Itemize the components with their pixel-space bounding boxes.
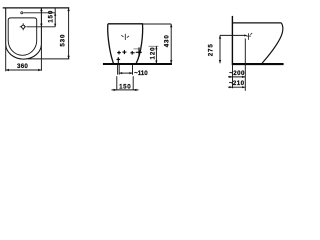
dim 430 <box>170 24 172 64</box>
side outline top <box>232 22 281 24</box>
fixing cross 1 <box>117 51 121 55</box>
dim 150 line <box>54 8 56 27</box>
faucet hole <box>21 12 23 14</box>
wire top extension middle <box>143 23 172 25</box>
wall line <box>231 16 233 65</box>
supply symbol <box>246 33 252 40</box>
wire supply extension down <box>244 39 246 91</box>
dim 150 bottom <box>116 76 118 90</box>
wire top rear edge / extension to 530 dim <box>3 7 70 9</box>
svg-text:~110: ~110 <box>134 70 148 77</box>
floor line middle <box>103 63 172 65</box>
wire drain leader <box>27 26 55 28</box>
wire faucet leader <box>23 12 55 14</box>
dim 275 <box>219 35 221 63</box>
wire supply leader <box>220 34 247 36</box>
supply cross big <box>136 47 142 56</box>
floor line right <box>232 63 283 65</box>
bowl inner rim <box>8 18 37 55</box>
wire left extension <box>5 46 7 72</box>
wire 120 reference line inner <box>134 48 142 50</box>
fixing cross 2 <box>122 50 126 54</box>
svg-text:275: 275 <box>207 43 214 56</box>
drain crosshair <box>20 23 27 30</box>
wire wall extension below floor <box>232 65 234 88</box>
svg-text:120: 120 <box>149 47 156 60</box>
outline front view <box>108 24 143 64</box>
drain pipe below floor <box>117 65 119 75</box>
svg-text:530: 530 <box>60 34 67 47</box>
svg-text:360: 360 <box>17 63 28 70</box>
svg-text:150: 150 <box>119 83 131 90</box>
drain cross at floor <box>117 57 121 63</box>
svg-text:150: 150 <box>48 10 55 23</box>
bidet outline plan <box>6 8 42 59</box>
dim 120 <box>155 46 157 63</box>
dim 360 line <box>6 69 42 71</box>
svg-text:~200: ~200 <box>229 70 245 77</box>
wire right extension <box>40 46 42 71</box>
dim 530 line <box>68 8 70 59</box>
dim 110 <box>132 65 134 75</box>
svg-text:~210: ~210 <box>229 80 245 87</box>
fixing cross 3 <box>130 51 134 55</box>
dim arrows on right outline <box>40 8 42 11</box>
svg-text:430: 430 <box>164 34 171 47</box>
wire 120 reference line outer <box>149 45 159 47</box>
side outline front profile <box>262 23 283 63</box>
dim 210 line <box>228 86 245 88</box>
wire front extension <box>28 58 69 60</box>
tap symbol front <box>121 34 129 40</box>
dim 200 line <box>228 76 245 78</box>
